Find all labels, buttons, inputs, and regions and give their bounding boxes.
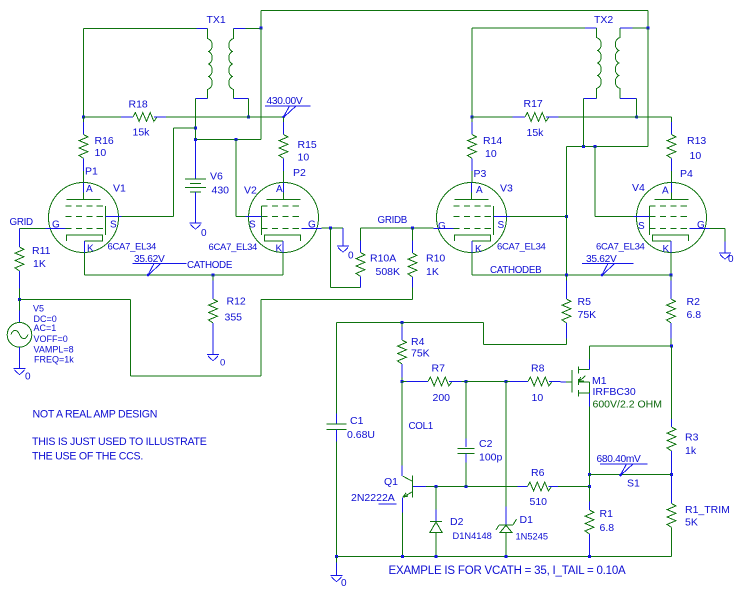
pin label P1 [85,166,98,178]
transistor Q1 [351,476,437,513]
svg-text:6CA7_EL34: 6CA7_EL34 [497,242,546,253]
wire [84,28,197,30]
node junction [470,115,473,118]
node junction [504,555,507,558]
svg-text:S1: S1 [627,478,640,490]
wire [566,147,568,276]
node junction [411,226,414,229]
svg-text:6CA7_EL34: 6CA7_EL34 [209,242,258,253]
wire [260,28,262,140]
svg-text:R14: R14 [483,135,502,147]
pin label P3 [474,168,487,180]
resistor R8 [510,363,561,405]
svg-text:TX2: TX2 [594,14,613,26]
node junction [504,380,507,383]
svg-text:10: 10 [690,150,702,162]
net label S1 [627,478,640,490]
svg-text:R1: R1 [600,508,614,520]
resistor R13 [667,117,706,183]
source V5 [7,300,74,369]
svg-text:S: S [110,220,117,231]
svg-text:V5: V5 [33,304,44,314]
node junction [247,115,250,118]
wire [589,475,591,487]
note text [32,436,207,448]
wire [472,253,671,275]
svg-text:600V/2.2 OHM: 600V/2.2 OHM [593,399,662,411]
node junction [588,485,591,488]
diode D1 [496,507,548,557]
wire [506,381,510,383]
svg-text:V1: V1 [113,183,126,195]
resistor R17 [513,98,559,139]
svg-text:FREQ=1k: FREQ=1k [34,355,74,365]
wire [590,346,672,360]
svg-text:10: 10 [298,152,310,164]
wire [20,300,413,377]
svg-text:R1_TRIM: R1_TRIM [685,504,730,516]
node junction [259,26,262,29]
node junction [588,473,591,476]
resistor R2 [667,275,702,346]
resistor R10A [356,228,400,288]
wire [559,116,672,118]
svg-text:CATHODE: CATHODE [187,260,233,271]
svg-text:A: A [476,185,483,196]
svg-text:430: 430 [212,185,230,197]
svg-text:355: 355 [225,312,243,324]
svg-text:R12: R12 [227,296,246,308]
svg-text:G: G [52,220,60,231]
svg-text:G: G [308,220,316,231]
svg-text:2N2222A: 2N2222A [351,492,395,504]
wire [361,227,434,229]
svg-text:S: S [498,220,505,231]
diode D2 [430,487,492,557]
wire [322,227,344,229]
resistor R18 [121,99,166,139]
svg-text:G: G [697,220,705,231]
node junction [669,273,672,276]
wire [633,27,649,29]
battery V6 [185,140,229,223]
node junction [211,273,214,276]
svg-text:R8: R8 [531,363,545,375]
tube V4 [596,182,710,255]
node junction [464,485,467,488]
svg-text:NOT A REAL AMP DESIGN: NOT A REAL AMP DESIGN [33,409,158,421]
svg-text:10: 10 [95,147,107,159]
svg-text:R4: R4 [411,336,425,348]
wire [402,513,404,557]
svg-text:A: A [276,184,283,195]
svg-text:D1N4148: D1N4148 [453,531,492,541]
ground [337,228,354,262]
svg-text:S: S [638,221,645,232]
wire [337,323,567,345]
svg-text:200: 200 [433,392,451,404]
svg-text:R10A: R10A [370,253,396,265]
wire [472,116,513,118]
note text [389,565,627,577]
svg-text:510: 510 [530,496,548,508]
net label GRID [10,217,34,228]
resistor R4 [398,323,430,382]
svg-text:S: S [249,220,256,231]
node junction [401,555,404,558]
tube V2 [209,183,322,255]
svg-text:10: 10 [532,392,544,404]
svg-text:0: 0 [25,372,31,383]
wire [402,381,407,383]
svg-text:VOFF=0: VOFF=0 [34,334,68,344]
ground [14,369,32,383]
node junction [18,298,21,301]
net label COL1 [409,421,433,432]
pin label P2 [293,167,306,179]
note text [33,409,158,421]
svg-text:10: 10 [485,148,497,160]
svg-text:GRIDB: GRIDB [378,215,408,226]
resistor R1_TRIM [667,475,730,557]
wire [248,99,250,118]
svg-text:R16: R16 [95,135,114,147]
node junction [194,126,197,129]
node junction [434,485,437,488]
svg-text:P3: P3 [474,168,487,180]
svg-text:15k: 15k [133,127,151,139]
resistor R7 [407,363,462,405]
wire [583,99,585,147]
svg-text:6.8: 6.8 [687,309,702,321]
svg-text:15k: 15k [527,127,545,139]
svg-text:0: 0 [220,358,225,369]
svg-text:6CA7_EL34: 6CA7_EL34 [596,242,645,253]
svg-text:R11: R11 [32,245,51,257]
svg-text:0: 0 [341,578,347,589]
svg-text:100p: 100p [479,452,503,464]
transformer TX2 [584,14,637,99]
node junction [82,115,85,118]
wire [246,28,262,30]
svg-text:EXAMPLE IS FOR VCATH = 35, I_T: EXAMPLE IS FOR VCATH = 35, I_TAIL = 0.10… [389,565,627,577]
capacitor C1 [327,323,376,557]
node junction [635,115,638,118]
node junction [434,555,437,558]
svg-text:6CA7_EL34: 6CA7_EL34 [108,242,157,253]
resistor R10 [408,228,445,300]
wire [122,128,196,217]
node junction [194,138,197,141]
svg-text:C2: C2 [479,438,493,450]
svg-text:THE USE OF THE CCS.: THE USE OF THE CCS. [32,451,143,463]
svg-text:P1: P1 [85,166,98,178]
svg-text:THIS IS JUST USED TO ILLUSTRAT: THIS IS JUST USED TO ILLUSTRATE [32,436,207,448]
svg-text:G: G [438,221,446,232]
svg-text:K: K [276,244,283,255]
svg-text:A: A [86,184,93,195]
wire [647,28,649,147]
svg-text:0: 0 [201,228,207,239]
tube V3 [434,183,546,256]
svg-text:V2: V2 [244,185,257,197]
svg-text:430.00V: 430.00V [267,96,303,107]
svg-text:V3: V3 [500,183,513,195]
svg-text:AC=1: AC=1 [34,323,57,333]
node junction [400,380,403,383]
wire [337,556,672,558]
wire [636,99,638,118]
probe 35.62V [133,254,187,276]
wire [471,28,473,117]
resistor R12 [209,275,246,354]
svg-text:P4: P4 [680,168,693,180]
resistor R14 [468,117,503,183]
resistor R11 [15,229,51,300]
probe 430.00V [265,96,311,118]
wire [195,99,197,140]
wire [85,253,284,275]
svg-text:TX1: TX1 [207,14,226,26]
wire [437,486,518,488]
node junction [670,344,673,347]
wire [472,27,585,29]
svg-text:R15: R15 [298,139,317,151]
wire [401,382,403,477]
svg-text:0: 0 [728,254,734,265]
net label CATHODEB [490,265,542,276]
resistor R16 [79,117,114,183]
svg-text:Q1: Q1 [384,476,398,488]
svg-text:75K: 75K [411,348,430,360]
node junction [582,145,585,148]
wire [510,216,567,218]
svg-text:R3: R3 [685,432,699,444]
resistor R3 [667,346,698,475]
probe 680.40mV [597,454,648,476]
wire [331,228,361,288]
svg-text:R6: R6 [531,467,545,479]
svg-text:D2: D2 [450,516,464,528]
resistor R1 [585,487,614,557]
svg-text:1K: 1K [33,258,46,270]
svg-text:K: K [663,244,670,255]
wire [462,381,467,383]
pin label P4 [680,168,693,180]
svg-text:R17: R17 [524,98,543,110]
wire [590,474,672,476]
wire [671,528,673,557]
svg-text:A: A [662,186,669,197]
node junction [400,321,403,324]
svg-text:0: 0 [348,251,354,262]
node junction [670,473,673,476]
wire [261,11,648,29]
node junction [593,145,596,148]
svg-text:1N5245: 1N5245 [516,532,549,542]
wire [567,146,649,148]
svg-text:R10: R10 [426,253,445,265]
node junction [335,555,338,558]
probe 35.62V [582,254,634,276]
wire [505,382,507,507]
wire [710,229,726,253]
ground [207,355,225,369]
svg-text:680.40mV: 680.40mV [597,454,642,465]
ground [331,557,348,590]
wire [84,116,122,118]
wire [236,140,246,217]
svg-text:IRFBC30: IRFBC30 [593,386,636,398]
node junction [565,273,568,276]
wire [589,407,591,475]
svg-text:508K: 508K [376,266,401,278]
node junction [565,215,568,218]
svg-text:75K: 75K [578,309,597,321]
svg-text:K: K [87,244,94,255]
node junction [234,138,237,141]
resistor R15 [279,117,317,183]
svg-text:GRID: GRID [10,217,34,228]
wire [196,139,262,141]
net label GRIDB [378,215,408,226]
wire [466,381,506,383]
svg-text:P2: P2 [293,167,306,179]
node junction [464,380,467,383]
svg-text:0.68U: 0.68U [347,429,375,441]
svg-text:5K: 5K [685,517,698,529]
wire [83,29,85,118]
svg-text:R7: R7 [432,363,446,375]
ground [190,223,208,239]
svg-text:1k: 1k [685,445,697,457]
svg-text:6.8: 6.8 [600,522,615,534]
tube V1 [46,183,157,255]
node junction [588,555,591,558]
wire [20,228,46,230]
svg-text:V4: V4 [632,182,645,194]
wire [558,486,590,488]
resistor R6 [517,467,558,508]
svg-text:CATHODEB: CATHODEB [490,265,542,276]
ground [719,253,734,265]
node junction [329,226,332,229]
note text [32,451,143,463]
svg-text:COL1: COL1 [409,421,433,432]
node junction [646,26,649,29]
resistor R5 [562,275,596,345]
wire [166,116,284,118]
capacitor C2 [458,382,503,487]
svg-text:D1: D1 [520,514,534,526]
svg-text:V6: V6 [210,171,223,183]
svg-text:R2: R2 [687,296,701,308]
mosfet M1 [561,347,662,411]
svg-text:R18: R18 [129,99,148,111]
wire [595,147,634,217]
svg-text:1K: 1K [426,266,439,278]
svg-text:R13: R13 [687,135,706,147]
svg-text:C1: C1 [350,415,364,427]
svg-text:VAMPL=8: VAMPL=8 [34,345,74,355]
net label CATHODE [187,260,233,271]
transformer TX1 [196,14,249,99]
svg-text:K: K [475,244,482,255]
svg-text:R5: R5 [578,296,592,308]
